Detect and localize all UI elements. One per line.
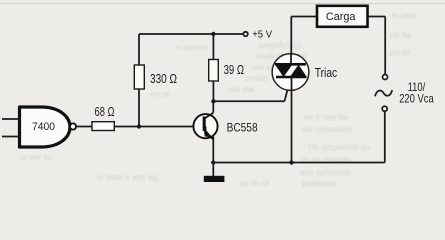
svg-text:Os omponide ou: Os omponide ou	[308, 142, 371, 152]
base bar	[203, 117, 206, 132]
NAND gate U1 7400	[2, 107, 76, 147]
faint scan line top	[0, 3, 445, 4]
wire: gate output to 68 ohm	[76, 126, 92, 128]
emitter path	[205, 127, 213, 140]
wire: Carga right lead	[368, 16, 386, 18]
+5V terminal circle	[243, 32, 247, 36]
svg-text:iu ana: iu ana	[392, 10, 415, 20]
AC squiggle	[375, 90, 392, 96]
svg-text:Carga: Carga	[326, 11, 356, 23]
svg-text:problems: problems	[302, 178, 337, 188]
input stub 2	[2, 136, 20, 138]
wire: triac gate diagonal	[285, 79, 291, 101]
svg-text:220 Vca: 220 Vca	[399, 92, 434, 106]
svg-text:BC558: BC558	[227, 121, 258, 135]
svg-text:snajdÅ© Ci: snajdÅ© Ci	[258, 40, 301, 50]
junction: top rail / 39 ohm	[211, 32, 215, 36]
input stub 1	[2, 118, 20, 120]
svg-text:en ra: en ra	[150, 89, 170, 99]
transistor circle	[193, 114, 217, 138]
bottom terminal circle	[382, 106, 387, 111]
collector diagonal	[205, 113, 214, 119]
ground	[204, 163, 225, 183]
paper background	[0, 0, 445, 191]
transistor Q1 BC558	[193, 113, 257, 139]
svg-text:aos sproticna: aos sproticna	[300, 167, 351, 177]
right triangle (points up)	[290, 65, 306, 77]
svg-text:ne ha: ne ha	[390, 30, 412, 40]
svg-text:o ntrruni: o ntrruni	[176, 42, 207, 52]
svg-text:330 Ω: 330 Ω	[150, 71, 177, 86]
svg-text:oe ls rvl: oe ls rvl	[240, 178, 269, 188]
wire: 68 ohm to transistor base	[114, 126, 195, 128]
resistor R 68 ohm	[92, 122, 114, 131]
junction: emitter / bottom rail	[211, 160, 215, 164]
wire: node A to triac gate (horizontal)	[213, 100, 284, 102]
wire: bottom rail	[213, 162, 384, 164]
svg-text:7400: 7400	[32, 121, 55, 133]
svg-text:ur mtte e alm sg: ur mtte e alm sg	[96, 172, 157, 182]
svg-text:rnodo: rnodo	[246, 73, 268, 83]
svg-text:po sit: po sit	[390, 47, 411, 57]
wire: 330 ohm top lead	[138, 34, 140, 66]
svg-text:68 Ω: 68 Ω	[95, 105, 115, 119]
triac circle	[272, 54, 309, 91]
junction: base wire / 330 ohm	[137, 124, 141, 128]
emitter arrowhead	[204, 130, 212, 137]
top terminal circle	[383, 75, 388, 80]
svg-text:39 Ω: 39 Ω	[224, 63, 245, 77]
gate body	[20, 107, 71, 147]
AC source 110/220 Vca	[375, 75, 434, 112]
svg-text:ta me os: ta me os	[20, 152, 53, 162]
svg-text:as tr das bе: as tr das bе	[304, 112, 349, 122]
wire: emitter down to bottom rail	[212, 137, 214, 163]
top bar	[275, 63, 306, 66]
junction: triac / bottom rail	[289, 160, 293, 164]
bottom bar	[276, 76, 307, 79]
wire: triac MT1 down to bottom rail	[291, 78, 293, 163]
node A junction (39 ohm / collector / gate wire)	[211, 99, 215, 103]
wire: 330 ohm bottom lead	[138, 89, 140, 127]
triac	[272, 54, 337, 91]
output inverter bubble	[70, 123, 76, 129]
wire: 39 ohm top lead	[212, 34, 214, 61]
resistor R 39 ohm	[209, 60, 219, 82]
wire: 39 ohm bottom lead to node A	[212, 81, 214, 101]
wire: collector up to node A	[212, 101, 214, 112]
wire: AC bottom terminal down	[384, 111, 386, 162]
main terminal vertical (inside top)	[290, 54, 292, 65]
svg-text:ais comariors: ais comariors	[302, 124, 353, 134]
wire: +5V top rail	[139, 33, 244, 35]
svg-text:ore ma: ore ma	[228, 84, 255, 94]
wire: Carga left lead	[291, 16, 317, 18]
wire: right side down to AC terminal	[384, 17, 386, 75]
wire: triac MT2 up to Carga	[290, 17, 292, 55]
left triangle (points down)	[275, 65, 292, 77]
resistor R 330 ohm	[134, 65, 144, 89]
svg-text:+5 V: +5 V	[252, 29, 272, 40]
load box Carga	[317, 6, 368, 27]
svg-text:Triac: Triac	[315, 65, 338, 80]
